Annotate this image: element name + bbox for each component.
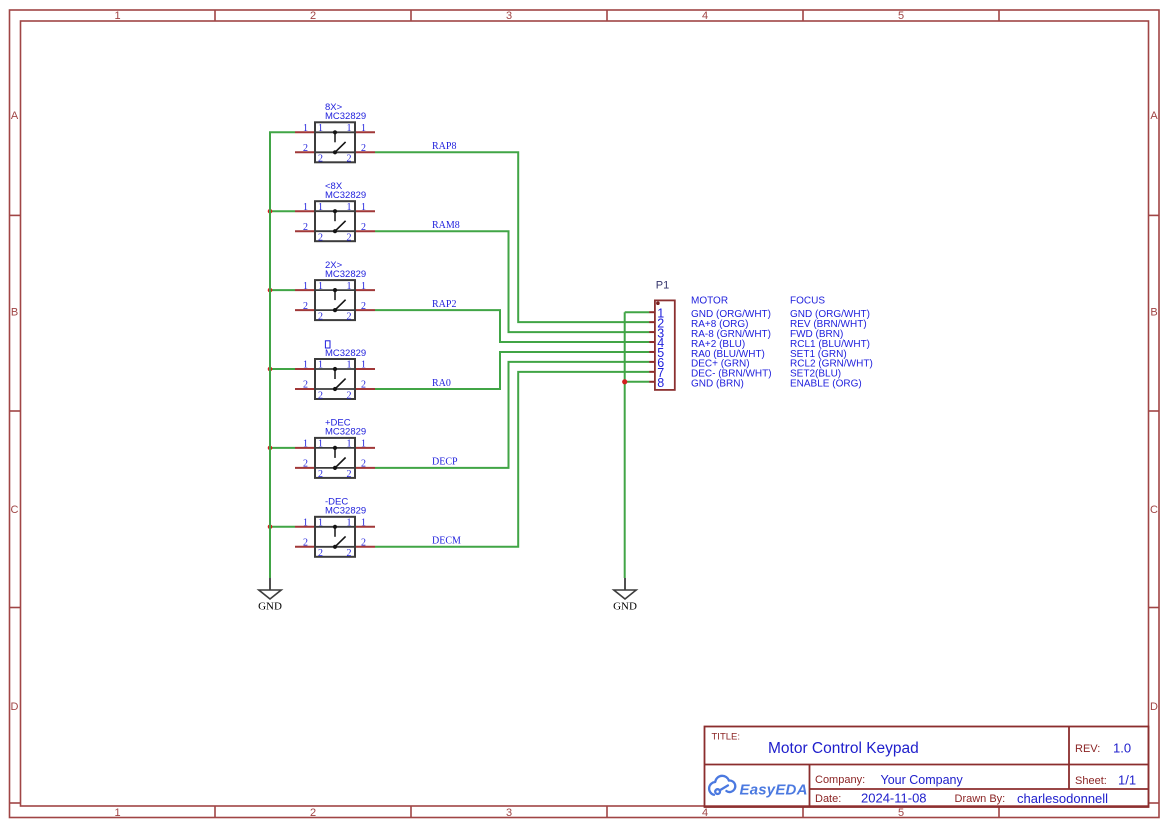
svg-text:4: 4 (702, 807, 708, 819)
svg-text:1: 1 (347, 518, 352, 529)
svg-text:A: A (1150, 110, 1158, 122)
svg-text:TITLE:: TITLE: (712, 732, 741, 743)
svg-text:Motor Control Keypad: Motor Control Keypad (768, 740, 919, 757)
svg-text:2: 2 (303, 538, 308, 549)
svg-text:2: 2 (318, 469, 323, 480)
svg-text:1: 1 (318, 123, 323, 134)
svg-text:GND: GND (613, 600, 637, 612)
svg-text:MC32829: MC32829 (325, 427, 366, 438)
svg-text:2: 2 (361, 538, 366, 549)
svg-text:DECP: DECP (432, 457, 458, 468)
svg-text:2: 2 (361, 380, 366, 391)
svg-text:REV:: REV: (1075, 743, 1100, 755)
svg-text:1: 1 (303, 518, 308, 529)
svg-text:DECM: DECM (432, 536, 461, 547)
svg-text:MOTOR: MOTOR (691, 295, 728, 306)
svg-text:MC32829: MC32829 (325, 269, 366, 280)
svg-text:1: 1 (114, 10, 120, 22)
svg-text:2: 2 (347, 469, 352, 480)
svg-text:1: 1 (303, 123, 308, 134)
svg-text:1: 1 (318, 202, 323, 213)
svg-text:A: A (11, 110, 19, 122)
svg-text:1: 1 (361, 202, 366, 213)
svg-text:C: C (1150, 504, 1158, 516)
svg-text:2: 2 (310, 807, 316, 819)
svg-text:1: 1 (361, 123, 366, 134)
svg-text:2: 2 (361, 143, 366, 154)
svg-text:2: 2 (347, 233, 352, 244)
svg-text:2: 2 (318, 154, 323, 165)
svg-text:2: 2 (347, 154, 352, 165)
svg-text:Sheet:: Sheet: (1075, 775, 1107, 787)
svg-text:1: 1 (361, 360, 366, 371)
svg-text:1/1: 1/1 (1118, 773, 1136, 788)
svg-text:2: 2 (361, 459, 366, 470)
svg-text:1: 1 (347, 202, 352, 213)
svg-text:MC32829: MC32829 (325, 111, 366, 122)
svg-text:1: 1 (318, 518, 323, 529)
svg-text:MC32829: MC32829 (325, 190, 366, 201)
svg-text:2: 2 (318, 548, 323, 559)
svg-text:2: 2 (303, 459, 308, 470)
svg-text:C: C (11, 504, 19, 516)
svg-text:D: D (1150, 701, 1158, 713)
svg-text:1: 1 (361, 281, 366, 292)
svg-text:3: 3 (506, 10, 512, 22)
svg-text:D: D (11, 701, 19, 713)
svg-text:2024-11-08: 2024-11-08 (861, 791, 927, 806)
svg-text:2: 2 (318, 390, 323, 401)
svg-text:B: B (1150, 307, 1157, 319)
svg-text:1: 1 (303, 202, 308, 213)
svg-text:1: 1 (114, 807, 120, 819)
svg-text:3: 3 (506, 807, 512, 819)
svg-text:1: 1 (361, 439, 366, 450)
svg-text:B: B (11, 307, 18, 319)
svg-text:2: 2 (303, 143, 308, 154)
svg-text:5: 5 (898, 10, 904, 22)
svg-text:MC32829: MC32829 (325, 506, 366, 517)
svg-text:2: 2 (361, 222, 366, 233)
svg-text:RAP8: RAP8 (432, 141, 456, 152)
svg-text:P1: P1 (656, 280, 669, 292)
svg-text:GND (BRN): GND (BRN) (691, 379, 744, 390)
svg-text:Your Company: Your Company (881, 773, 964, 787)
svg-text:2: 2 (303, 222, 308, 233)
svg-text:Drawn By:: Drawn By: (955, 793, 1006, 805)
svg-text:5: 5 (898, 807, 904, 819)
svg-text:2: 2 (318, 233, 323, 244)
svg-text:RA0: RA0 (432, 378, 451, 389)
svg-text:1: 1 (347, 281, 352, 292)
svg-text:1: 1 (318, 281, 323, 292)
svg-text:EasyEDA: EasyEDA (740, 781, 808, 798)
svg-text:2: 2 (303, 301, 308, 312)
svg-text:ENABLE (ORG): ENABLE (ORG) (790, 379, 862, 390)
svg-text:1: 1 (318, 360, 323, 371)
svg-text:RAP2: RAP2 (432, 299, 456, 310)
svg-text:2: 2 (318, 311, 323, 322)
svg-text:GND: GND (258, 600, 282, 612)
svg-text:1: 1 (347, 439, 352, 450)
svg-text:2: 2 (347, 311, 352, 322)
svg-text:1: 1 (303, 360, 308, 371)
svg-text:charlesodonnell: charlesodonnell (1017, 791, 1108, 806)
svg-text:4: 4 (702, 10, 708, 22)
svg-text:2: 2 (347, 548, 352, 559)
svg-text:1: 1 (303, 439, 308, 450)
svg-text:1: 1 (303, 281, 308, 292)
svg-text:FOCUS: FOCUS (790, 295, 825, 306)
svg-text:1.0: 1.0 (1113, 741, 1131, 756)
svg-text:RAM8: RAM8 (432, 220, 460, 231)
svg-text:2: 2 (347, 390, 352, 401)
svg-text:1: 1 (318, 439, 323, 450)
svg-text:2: 2 (303, 380, 308, 391)
svg-text:8: 8 (657, 376, 664, 390)
svg-text:Date:: Date: (815, 793, 841, 805)
svg-text:2: 2 (310, 10, 316, 22)
svg-text:Company:: Company: (815, 774, 865, 786)
svg-text:2: 2 (361, 301, 366, 312)
svg-text:1: 1 (347, 360, 352, 371)
svg-text:1: 1 (347, 123, 352, 134)
svg-text:MC32829: MC32829 (325, 348, 366, 359)
svg-text:1: 1 (361, 518, 366, 529)
